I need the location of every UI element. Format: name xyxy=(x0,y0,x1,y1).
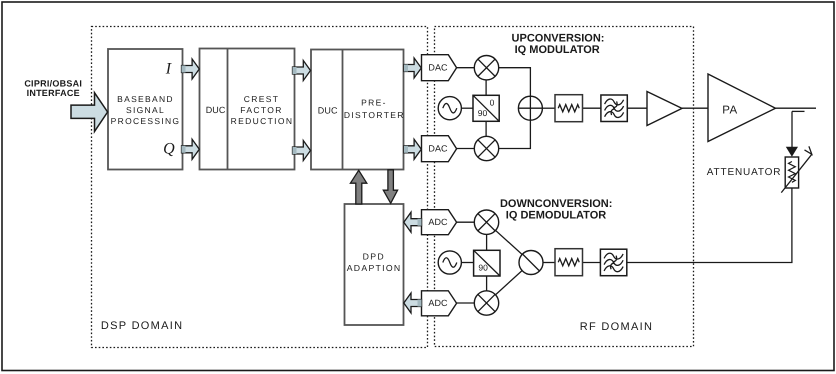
mixer M2 xyxy=(474,136,498,160)
svg-text:IQ DEMODULATOR: IQ DEMODULATOR xyxy=(506,209,606,221)
svg-text:DAC: DAC xyxy=(428,143,448,153)
arrow CFR to DUC2 bottom xyxy=(293,141,311,161)
power amplifier PA xyxy=(708,74,776,142)
arrow Q baseband to DUC xyxy=(182,139,200,159)
block DUC + CREST FACTOR REDUCTION xyxy=(200,49,295,170)
wire phase shifter to mixer M1 xyxy=(485,80,487,96)
arrowhead into attenuator xyxy=(786,147,798,157)
dashed box DSP DOMAIN xyxy=(92,27,428,348)
wire mixer M2 to summer bottom xyxy=(499,120,531,149)
wire oscillator2 to phase shifter 90 xyxy=(461,262,473,264)
feedback arrow down (predistorter to DPD) xyxy=(383,170,397,204)
wire oscillator to phase shifter 0/90 xyxy=(461,107,473,109)
lowpass filter up xyxy=(555,95,583,122)
svg-text:I: I xyxy=(165,60,172,77)
label CIPRI/OBSAI INTERFACE xyxy=(24,78,82,98)
svg-text:INTERFACE: INTERFACE xyxy=(27,88,80,98)
mixer M1 xyxy=(474,55,498,79)
wire phase shifter 90 to mixer M3 xyxy=(486,234,488,250)
wire attenuator to downconversion bandpass xyxy=(627,188,792,263)
block DUC + PRE-DISTORTER xyxy=(311,50,405,170)
svg-text:REDUCTION: REDUCTION xyxy=(231,116,294,126)
svg-text:SIGNAL: SIGNAL xyxy=(126,105,165,115)
label DOWNCONVERSION: IQ DEMODULATOR xyxy=(500,198,612,221)
DAC converter bottom xyxy=(422,136,457,162)
wire coupler down to attenuator xyxy=(791,111,793,147)
svg-text:90: 90 xyxy=(478,263,488,273)
wire phase shifter to mixer M2 xyxy=(485,121,487,136)
svg-text:PROCESSING: PROCESSING xyxy=(111,116,181,126)
input arrow CIPRI/OBSAI xyxy=(71,93,108,132)
wire mixer M3 to ADC1 xyxy=(457,221,475,223)
svg-text:PRE-: PRE- xyxy=(361,97,387,107)
wire DAC2 to mixer M2 xyxy=(457,148,476,150)
label RF DOMAIN xyxy=(580,321,653,333)
svg-text:ADC: ADC xyxy=(428,217,448,227)
arrow CFR to DUC2 top xyxy=(293,61,311,81)
block BASEBAND SIGNAL PROCESSING xyxy=(108,49,183,170)
phase shifter 0/90 xyxy=(473,95,499,121)
wire PA output xyxy=(776,107,817,109)
arrow predistorter to DAC1 xyxy=(404,58,421,78)
driver amplifier xyxy=(647,92,682,126)
arrow predistorter to DAC2 xyxy=(404,139,421,159)
svg-text:90: 90 xyxy=(478,108,488,118)
attenuator (variable) xyxy=(781,146,812,192)
label I xyxy=(165,60,172,77)
svg-text:ADC: ADC xyxy=(428,298,448,308)
svg-text:CIPRI/OBSAI: CIPRI/OBSAI xyxy=(24,78,82,88)
label Q xyxy=(163,141,175,158)
svg-text:0: 0 xyxy=(490,97,495,107)
svg-text:DUC: DUC xyxy=(318,106,338,116)
wire mixer M4 to ADC2 xyxy=(457,302,475,304)
svg-text:DISTORTER: DISTORTER xyxy=(344,110,405,120)
splitter/combiner xyxy=(519,251,543,275)
arrow I baseband to DUC xyxy=(182,59,200,79)
svg-text:DAC: DAC xyxy=(428,62,448,72)
svg-text:ATTENUATOR: ATTENUATOR xyxy=(707,167,782,178)
ADC converter top xyxy=(422,210,457,235)
svg-text:IQ MODULATOR: IQ MODULATOR xyxy=(515,44,600,56)
svg-text:DOWNCONVERSION:: DOWNCONVERSION: xyxy=(500,198,612,210)
svg-text:RF DOMAIN: RF DOMAIN xyxy=(580,321,653,333)
wire driver amp to PA xyxy=(682,107,708,109)
wire lowpass to bandpass filter xyxy=(583,107,602,109)
wire down lowpass to splitter xyxy=(543,262,555,264)
wire DAC1 to mixer M1 xyxy=(457,67,476,69)
wire bandpass filter to driver amp xyxy=(627,107,647,109)
svg-text:DPD: DPD xyxy=(363,252,385,262)
svg-text:Q: Q xyxy=(163,141,175,158)
dashed box RF DOMAIN xyxy=(435,27,694,347)
label DSP DOMAIN xyxy=(101,320,183,332)
bandpass filter down xyxy=(600,249,626,276)
oscillator LO1 xyxy=(438,97,461,120)
svg-text:UPCONVERSION:: UPCONVERSION: xyxy=(512,32,605,44)
wire coupler stub xyxy=(792,110,805,112)
label ATTENUATOR xyxy=(707,167,782,178)
summer xyxy=(518,96,542,120)
ADC converter bottom xyxy=(422,291,457,316)
wire summer to lowpass filter xyxy=(542,107,555,109)
svg-text:DSP DOMAIN: DSP DOMAIN xyxy=(101,320,183,332)
arrow ADC2 to DPD xyxy=(404,293,422,313)
wire mixer M1 to summer top xyxy=(499,68,531,97)
DAC converter top xyxy=(422,55,457,81)
svg-text:DUC: DUC xyxy=(206,105,226,115)
phase shifter 90 xyxy=(474,250,500,276)
mixer M4 xyxy=(474,291,498,315)
feedback arrow up (DPD to predistorter) xyxy=(350,170,366,204)
svg-text:ADAPTION: ADAPTION xyxy=(347,263,402,273)
wire splitter to mixer M3 diagonal xyxy=(487,222,532,262)
wire splitter to mixer M4 diagonal xyxy=(487,263,532,304)
svg-text:FACTOR: FACTOR xyxy=(240,105,282,115)
bandpass filter up xyxy=(601,95,627,122)
wire phase shifter 90 to mixer M4 xyxy=(486,276,488,292)
oscillator LO2 xyxy=(438,251,461,274)
svg-text:CREST: CREST xyxy=(244,94,280,104)
mixer M3 xyxy=(474,210,498,234)
wire down bandpass to down lowpass xyxy=(583,262,601,264)
block DPD ADAPTION xyxy=(345,204,404,325)
lowpass filter down xyxy=(555,249,583,276)
arrow ADC1 to DPD xyxy=(404,212,422,232)
label UPCONVERSION: IQ MODULATOR xyxy=(512,32,605,56)
svg-text:PA: PA xyxy=(722,105,737,117)
svg-text:BASEBAND: BASEBAND xyxy=(117,94,174,104)
